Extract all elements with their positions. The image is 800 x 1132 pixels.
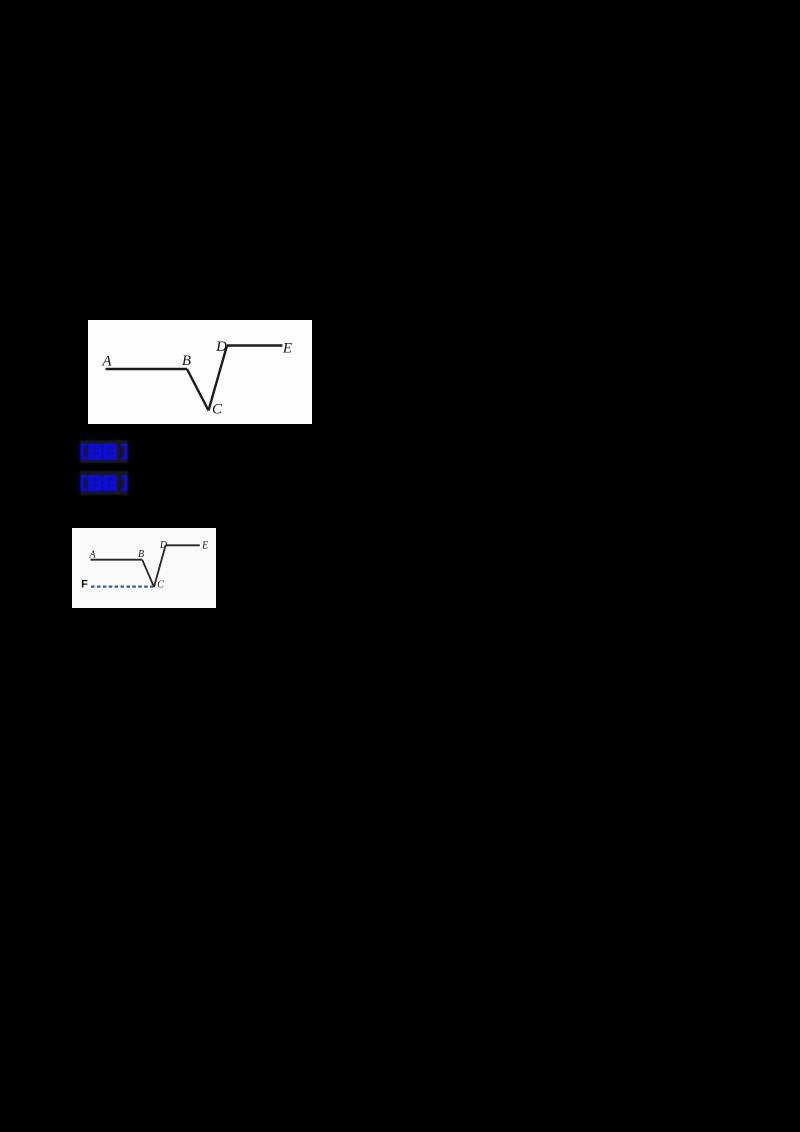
wire segment AB <box>106 368 188 370</box>
blue heading 1 <box>80 440 128 463</box>
wire segment DE <box>227 344 283 346</box>
hanzi block 1 <box>88 444 102 460</box>
figure 1 panel (white) <box>88 320 312 424</box>
wire segment CD <box>209 346 228 411</box>
svg-text:C: C <box>212 402 223 418</box>
wire segment BC <box>187 369 209 411</box>
hanzi block 2 <box>103 475 117 491</box>
left bracket <box>81 444 87 460</box>
blue heading 2 <box>80 471 128 495</box>
svg-text:A: A <box>101 353 112 369</box>
right bracket <box>122 444 128 460</box>
svg-text:C: C <box>157 580 164 591</box>
wire segment DE <box>166 544 200 546</box>
svg-text:B: B <box>182 353 191 369</box>
svg-text:F: F <box>81 579 88 591</box>
left bracket <box>81 475 87 491</box>
wire segment BC <box>142 560 154 587</box>
svg-text:E: E <box>282 341 292 357</box>
hanzi block 1 <box>88 475 102 491</box>
hanzi block 2 <box>103 444 117 460</box>
right bracket <box>122 475 128 491</box>
figure 2 white background <box>72 528 216 608</box>
figure 2 panel (white) <box>72 528 216 608</box>
svg-text:D: D <box>159 540 168 551</box>
dashed auxiliary line FC <box>91 585 154 587</box>
svg-text:A: A <box>88 550 96 561</box>
wire segment AB <box>91 559 143 561</box>
svg-text:D: D <box>215 339 227 355</box>
wire segment CD <box>154 545 166 587</box>
svg-text:E: E <box>201 541 208 552</box>
figure 1 white background <box>88 320 312 424</box>
svg-text:B: B <box>138 549 144 560</box>
